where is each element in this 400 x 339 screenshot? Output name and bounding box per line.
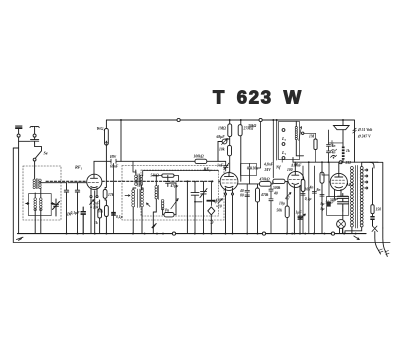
link junction dot bbox=[187, 180, 212, 182]
jack symbol bbox=[332, 155, 336, 156]
ground symbol left end of bus bbox=[17, 237, 24, 240]
tuning indicator diamond bbox=[208, 207, 215, 234]
svg-text:Se: Se bbox=[44, 151, 48, 156]
svg-text:8n: 8n bbox=[317, 188, 321, 192]
core arrow right bbox=[51, 203, 54, 205]
TA coil core bbox=[299, 127, 302, 141]
mains lead curve top bbox=[370, 161, 378, 163]
U3 plate bbox=[292, 171, 299, 175]
wire into box1 bbox=[34, 161, 36, 179]
bus node A bbox=[172, 232, 175, 235]
oscillator box inner (dashed) bbox=[141, 170, 219, 216]
tuning coil L2b bbox=[39, 198, 42, 211]
svg-text:1M: 1M bbox=[309, 135, 315, 139]
T1 tap circles bbox=[366, 169, 368, 171]
inner box top wire bbox=[143, 171, 219, 176]
cathode resistor R3 bbox=[98, 209, 102, 218]
wire 470k vert bbox=[257, 184, 259, 234]
osc coil bottom cores bbox=[137, 189, 140, 208]
triode NF U3 bbox=[288, 171, 304, 187]
U2 grid wire left bbox=[219, 180, 220, 182]
svg-text:150: 150 bbox=[376, 208, 382, 212]
cord end hatch 2 bbox=[385, 251, 389, 255]
speaker stem from bus bbox=[342, 120, 344, 126]
speaker wire down bbox=[342, 130, 344, 146]
cathode caps stack bbox=[338, 194, 349, 212]
TA coil wires bbox=[296, 122, 303, 156]
svg-text:10μ: 10μ bbox=[279, 202, 285, 206]
vertical wire v3 bbox=[313, 166, 315, 234]
TA terminal 3 bbox=[282, 157, 285, 160]
TA coil bbox=[295, 127, 297, 140]
U1 pins bbox=[91, 188, 97, 196]
svg-text:L₁: L₁ bbox=[281, 150, 287, 155]
electrolytic 0uF blob bbox=[81, 207, 86, 234]
loudspeaker cone bbox=[334, 126, 350, 130]
jack dot bbox=[333, 157, 335, 159]
svg-text:500k: 500k bbox=[273, 186, 281, 190]
wire link to bus bbox=[186, 182, 188, 234]
top bus junction dots bbox=[121, 119, 343, 121]
svg-text:8μ: 8μ bbox=[321, 207, 325, 211]
antenna A1 symbol bbox=[16, 126, 23, 134]
bus node C bbox=[331, 232, 334, 235]
resistor right of TA box bbox=[314, 139, 317, 150]
svg-text:30kΩ: 30kΩ bbox=[247, 124, 257, 128]
osc arrow right bbox=[146, 203, 150, 207]
padder coil Pa bbox=[161, 199, 164, 209]
vertical wire v2 bbox=[308, 162, 310, 233]
svg-text:4,8nF: 4,8nF bbox=[263, 163, 274, 167]
U4 pins bbox=[335, 189, 342, 196]
elko blob right bbox=[371, 217, 375, 227]
U4 cathode bbox=[335, 187, 343, 188]
top bus node circle 2 bbox=[259, 118, 262, 121]
bus node B bbox=[262, 232, 265, 235]
feed wire from plate rail into IF primary bbox=[133, 161, 136, 175]
vertical wire v1 bbox=[302, 166, 304, 234]
hatch on B+ descent bbox=[353, 128, 356, 133]
cap on v4 bbox=[320, 194, 324, 196]
wire resistor TA bbox=[315, 133, 317, 162]
junction tick mid bbox=[152, 224, 156, 228]
VC3 stem bbox=[211, 182, 213, 206]
svg-text:0,1μF: 0,1μF bbox=[71, 211, 81, 215]
svg-text:40: 40 bbox=[239, 189, 244, 193]
power transformer T1 primary bbox=[350, 166, 353, 227]
band filter box 1 (dashed) bbox=[23, 166, 61, 220]
tuning coil L2a bbox=[34, 198, 37, 211]
resistor Pa bottom bbox=[164, 213, 174, 217]
shield box around 30n cap bbox=[241, 164, 257, 176]
inner screen box bbox=[29, 194, 52, 216]
transformer bottom wires bbox=[345, 227, 362, 234]
T1 top wire to mains bbox=[362, 162, 374, 168]
resistor R4 17k bbox=[103, 190, 107, 199]
pilot lamp filament bbox=[338, 221, 344, 227]
svg-text:100: 100 bbox=[287, 168, 293, 172]
svg-text:4n: 4n bbox=[309, 186, 314, 190]
svg-text:40: 40 bbox=[273, 192, 278, 196]
rail node circle bbox=[339, 161, 342, 164]
annotation arrow bbox=[301, 214, 306, 219]
svg-text:T 623 W: T 623 W bbox=[213, 87, 303, 108]
T1 taps bbox=[363, 170, 366, 188]
electrolytic blob bbox=[298, 216, 302, 219]
resistor on v1 bbox=[301, 180, 305, 192]
svg-text:50k: 50k bbox=[277, 209, 283, 213]
wires resistors to bus bbox=[230, 120, 241, 181]
svg-text:1k: 1k bbox=[94, 221, 98, 225]
U1 cathode wire to bus bbox=[91, 191, 95, 234]
wire v329 bbox=[328, 162, 330, 196]
svg-text:Pa: Pa bbox=[165, 209, 169, 213]
svg-text:1k: 1k bbox=[346, 149, 350, 153]
wire grid line to tube bbox=[68, 182, 86, 184]
grid coupling cap Cg1 bbox=[64, 183, 68, 234]
RF2 cathode arrow bbox=[218, 199, 223, 204]
svg-text:≈10: ≈10 bbox=[216, 205, 222, 209]
antenna A1 terminal bbox=[17, 134, 20, 137]
svg-text:Nf: Nf bbox=[275, 165, 281, 170]
wire L2a down to bus bbox=[34, 193, 36, 234]
osc coil mid core bbox=[158, 185, 160, 199]
svg-text:47μμ: 47μμ bbox=[170, 184, 179, 188]
triode RF1 U1 bbox=[87, 174, 102, 189]
TA tap circle bbox=[302, 132, 304, 134]
speaker wire to plate line bbox=[339, 160, 343, 174]
svg-text:∅ 247 V: ∅ 247 V bbox=[358, 135, 372, 139]
wire B+ node down bbox=[257, 122, 261, 168]
svg-text:8μ: 8μ bbox=[321, 202, 325, 206]
ganged tuning dashed link bbox=[46, 180, 213, 182]
transformer bottom ground arrow bbox=[354, 236, 360, 240]
switch Se bbox=[35, 143, 42, 158]
resistor 100k horizontal bbox=[195, 159, 207, 163]
pilot lamp legs bbox=[340, 228, 343, 234]
cap mid chain bbox=[269, 184, 273, 234]
chassis frame left vertical bbox=[12, 148, 14, 242]
resistor WG1 bbox=[105, 129, 109, 146]
svg-text:24V: 24V bbox=[264, 168, 272, 172]
wire L2b down to bus bbox=[40, 189, 42, 234]
U1 plate bbox=[91, 174, 98, 178]
U3 pin wires bbox=[294, 190, 300, 234]
oscillator box outer (dashed) bbox=[122, 166, 224, 221]
curl arrow 2 bbox=[331, 155, 337, 157]
RF2 feed resistor 1M bbox=[228, 124, 232, 137]
svg-text:L₂: L₂ bbox=[281, 136, 287, 141]
svg-text:HW: HW bbox=[109, 155, 117, 159]
U4 cathode wires bbox=[335, 194, 343, 234]
U3 grid dashes bbox=[289, 178, 303, 180]
B+ drop to detector cap 30n bbox=[247, 164, 251, 184]
svg-text:10k: 10k bbox=[98, 210, 104, 214]
B+ feed vertical WG1 chain bbox=[105, 120, 106, 234]
osc coil pair top b bbox=[140, 175, 143, 185]
resistor R6 horizontal bbox=[162, 174, 174, 177]
U1 grid arrow bbox=[90, 200, 95, 205]
wires trimmer chain bbox=[218, 137, 230, 172]
series capacitor C-ant bbox=[31, 137, 39, 143]
cap C2 bbox=[75, 183, 79, 234]
resistor 470k detector bbox=[260, 182, 272, 187]
resistor 60k bbox=[285, 206, 289, 218]
svg-text:470kΩ: 470kΩ bbox=[259, 178, 270, 182]
U1 pin circles bbox=[90, 196, 92, 198]
antenna A2 terminal bbox=[33, 134, 36, 137]
series caps 4nF bbox=[327, 130, 331, 162]
svg-text:1nF: 1nF bbox=[217, 164, 224, 168]
U4 grids bbox=[332, 180, 345, 183]
resistor 470k vert bbox=[256, 188, 260, 202]
trimmer pot circle bbox=[222, 139, 227, 144]
coupling resistor tall bbox=[320, 172, 324, 183]
wire between resistors bbox=[271, 181, 288, 184]
switch Se terminal bbox=[33, 158, 36, 161]
ground bus bbox=[18, 233, 367, 235]
T1 core bbox=[356, 166, 358, 229]
osc coil mid bbox=[155, 186, 158, 199]
B+ top bus bbox=[106, 120, 354, 162]
wire antenna A1 down bbox=[18, 137, 20, 234]
R6 wires bbox=[152, 176, 179, 182]
svg-text:RF₂: RF₂ bbox=[204, 167, 212, 172]
cord end hatch 1 bbox=[378, 249, 383, 253]
resistor 300k bbox=[273, 179, 285, 183]
bus junction dots bbox=[67, 233, 356, 235]
variable cap VC2 bbox=[200, 181, 207, 233]
R3 wire bbox=[99, 200, 101, 234]
svg-text:232: 232 bbox=[345, 161, 352, 165]
pentode RF2 U2 bbox=[220, 173, 238, 191]
svg-text:10k: 10k bbox=[219, 148, 225, 152]
TA switch verticals bbox=[273, 120, 276, 178]
voice coil winding bbox=[342, 147, 345, 160]
U3 pins bbox=[294, 186, 300, 191]
trimmer cap in box1 bbox=[53, 199, 60, 216]
core arrow left bbox=[26, 203, 29, 205]
pilot lamp bbox=[337, 220, 346, 229]
svg-text:68nF: 68nF bbox=[110, 165, 119, 169]
mains lead right bbox=[378, 162, 383, 228]
T1 secondary bbox=[360, 166, 363, 227]
U2 pin wires to bus bbox=[226, 195, 233, 234]
osc core lines bbox=[138, 174, 139, 187]
svg-text:4n: 4n bbox=[331, 144, 336, 148]
antenna coil L1a bbox=[33, 179, 35, 189]
cap on v1 bbox=[301, 193, 305, 195]
VC1 junction dot bbox=[194, 182, 196, 202]
U2 grids bbox=[222, 180, 236, 183]
trimmer VC3 thick bar bbox=[207, 200, 215, 202]
dropper resistor right bbox=[371, 205, 374, 214]
TA tap wire bbox=[304, 132, 316, 134]
filter caps block wires bbox=[327, 197, 349, 216]
TA box drop wire bbox=[281, 160, 283, 163]
svg-text:WG₁: WG₁ bbox=[97, 126, 106, 131]
cap 47pF bbox=[166, 176, 170, 187]
elko square bbox=[327, 202, 331, 207]
svg-text:68μF: 68μF bbox=[217, 135, 226, 139]
Pa link wires bbox=[153, 176, 176, 234]
U2 pins bbox=[226, 188, 233, 193]
AF rail bbox=[293, 158, 378, 163]
arrow on WG1 line bbox=[105, 141, 107, 146]
antenna A2 symbol bbox=[30, 126, 39, 134]
resistor feed from rail bbox=[321, 162, 323, 233]
U1 cathode bbox=[91, 187, 97, 188]
output pentode U4 AL4 bbox=[330, 173, 347, 190]
curl arrow 1 bbox=[331, 149, 337, 151]
tie wire to speaker line bbox=[329, 142, 344, 144]
wire L1b to grid line bbox=[40, 182, 67, 184]
wire dropper bbox=[372, 168, 374, 216]
TA terminal 1 bbox=[282, 129, 285, 132]
resistor R5 bbox=[105, 206, 109, 217]
trimmer arrow bbox=[222, 139, 228, 145]
svg-text:4n: 4n bbox=[331, 151, 336, 155]
resistor R10k below trimmer bbox=[228, 145, 232, 155]
U3 cathode bbox=[292, 183, 299, 184]
U2 pin circles bbox=[225, 193, 227, 195]
cap on v3 bbox=[312, 191, 316, 193]
svg-text:4μ: 4μ bbox=[213, 200, 218, 204]
svg-text:470k: 470k bbox=[260, 193, 269, 197]
svg-text:1MΩ: 1MΩ bbox=[218, 127, 226, 131]
U4 grid wire bbox=[322, 172, 330, 182]
U3 plate wire up to coupling line bbox=[294, 162, 296, 171]
osc coil bottom a bbox=[132, 190, 135, 207]
jack cap bbox=[331, 141, 334, 146]
svg-text:17k: 17k bbox=[108, 193, 114, 197]
RF2 feed resistor 2.7M bbox=[238, 125, 242, 136]
osc wires down bbox=[133, 170, 143, 234]
detector chain wire bbox=[238, 183, 259, 185]
U2 cathode bbox=[225, 186, 233, 187]
rail junction dots bbox=[309, 161, 329, 163]
wire 68nF branch down bbox=[113, 163, 115, 233]
svg-text:1μF: 1μF bbox=[296, 211, 303, 215]
svg-text:30n: 30n bbox=[252, 167, 259, 171]
osc arrow left bbox=[125, 195, 130, 197]
TA terminal 2 bbox=[282, 143, 285, 146]
padder arrow bbox=[171, 199, 179, 209]
plate decoupling cap 68nF bbox=[111, 159, 226, 163]
variable cap VC1 bbox=[191, 181, 202, 233]
top bus node circle bbox=[177, 118, 180, 121]
antenna coil L1b bbox=[39, 179, 41, 189]
osc coil pair top bbox=[135, 175, 138, 185]
wire 60k bbox=[286, 184, 288, 234]
label 10nF arrow bbox=[296, 164, 298, 167]
wire antenna link bbox=[19, 140, 30, 142]
RF1 plate wire bbox=[94, 161, 111, 174]
mains cord wires bbox=[375, 228, 388, 257]
B+ feed vertical 2 bbox=[120, 120, 122, 161]
U1 grid dashes bbox=[88, 182, 99, 184]
svg-text:80: 80 bbox=[240, 194, 244, 198]
coil core lines bbox=[37, 179, 38, 189]
svg-text:100kΩ: 100kΩ bbox=[194, 155, 204, 159]
TA terminal box bbox=[279, 122, 300, 160]
tuning curl bbox=[210, 220, 213, 223]
svg-text:0,1μ: 0,1μ bbox=[305, 197, 312, 201]
svg-text:4,7: 4,7 bbox=[284, 197, 290, 201]
chassis frame bottom line bbox=[13, 242, 390, 244]
svg-text:50μ: 50μ bbox=[330, 198, 336, 202]
U4 plate bbox=[335, 173, 343, 177]
mains switch bbox=[372, 226, 378, 232]
wire 1M line up bbox=[218, 160, 226, 162]
caps 40n 80n bbox=[245, 184, 250, 234]
svg-text:∅ 51 Volt: ∅ 51 Volt bbox=[358, 128, 374, 132]
wire frame link bbox=[13, 147, 18, 149]
svg-text:RF₁: RF₁ bbox=[75, 165, 83, 170]
osc coil bottom b bbox=[141, 189, 144, 206]
U2 plate bbox=[225, 172, 234, 177]
U3 grid arrow bbox=[287, 193, 291, 197]
svg-text:0,1μ: 0,1μ bbox=[116, 215, 123, 219]
electrolytic blob mid bbox=[112, 212, 116, 215]
cap 1nF at RF2 grid bbox=[224, 161, 229, 171]
